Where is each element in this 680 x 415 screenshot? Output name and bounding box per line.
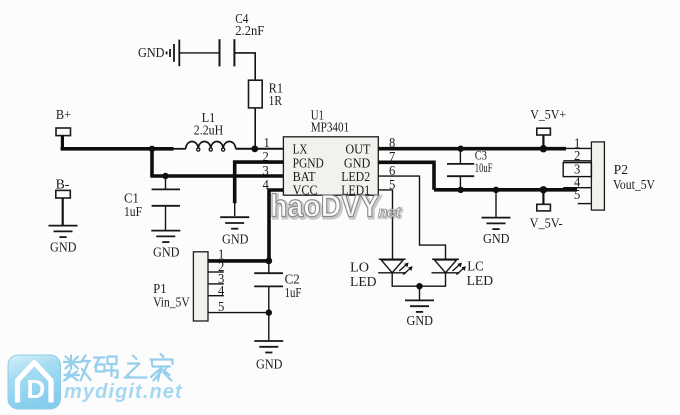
ground PGND <box>220 217 249 247</box>
label V_5V+ <box>530 107 566 122</box>
wire V_5V+ stub <box>542 135 544 149</box>
svg-text:MP3401: MP3401 <box>311 120 350 135</box>
svg-text:5: 5 <box>574 187 581 202</box>
node VCC junction <box>265 258 272 265</box>
node C3 bottom <box>458 187 464 193</box>
wire VCC pin4 <box>269 190 283 261</box>
svg-text:GND: GND <box>407 314 434 329</box>
svg-text:3: 3 <box>263 163 270 178</box>
label LO LED <box>350 261 377 290</box>
node C3 top <box>458 146 464 152</box>
P2 pin 4 <box>563 174 591 189</box>
connector P2 <box>591 142 604 210</box>
label B+ <box>56 107 71 122</box>
LED LO <box>378 259 412 274</box>
label C1 value <box>124 191 142 220</box>
terminal B+ <box>56 128 71 136</box>
label U1 right pin names <box>341 143 371 199</box>
wire C2 to ground <box>268 313 270 341</box>
capacitor C2 <box>254 261 283 313</box>
wire VCC to P1 pin1 <box>208 259 269 263</box>
wire R1 to node <box>254 108 256 149</box>
svg-text:PGND: PGND <box>293 156 324 171</box>
op-amp U1 MP3401 body <box>283 137 378 195</box>
P1 pin 3 stub <box>208 271 225 286</box>
svg-text:B-: B- <box>56 177 70 192</box>
svg-text:V_5V+: V_5V+ <box>530 107 566 122</box>
label R1 value <box>269 81 283 108</box>
svg-text:1R: 1R <box>269 93 282 108</box>
svg-text:OUT: OUT <box>345 143 370 158</box>
P2 pin 2 <box>563 148 591 163</box>
svg-text:LC: LC <box>467 260 484 275</box>
inductor L1 <box>173 141 235 151</box>
svg-text:Vout_5V: Vout_5V <box>613 177 655 192</box>
pin number 3 <box>263 163 270 178</box>
svg-text:net: net <box>378 204 402 221</box>
pin number 7 <box>389 149 396 164</box>
svg-text:P2: P2 <box>614 162 628 177</box>
label P1 <box>153 281 190 309</box>
node LED gnd junction <box>416 283 422 289</box>
svg-text:1uF: 1uF <box>285 285 302 300</box>
LED LC <box>432 259 466 274</box>
svg-text:2.2nF: 2.2nF <box>235 23 265 38</box>
wire BAT rail <box>150 174 283 178</box>
wire rail to ground <box>495 190 497 217</box>
P2 pin 5 <box>574 187 591 203</box>
label V_5V- <box>530 216 563 231</box>
ground LEDs <box>405 300 434 329</box>
svg-text:Vin_5V: Vin_5V <box>153 295 190 310</box>
ground B- <box>49 226 78 256</box>
P2 pin 1 <box>566 135 591 150</box>
pin number 4 <box>263 177 270 192</box>
node C1 junction <box>162 173 168 179</box>
label B- <box>56 177 70 192</box>
svg-text:GND: GND <box>222 233 249 248</box>
pin number 5 <box>389 177 396 192</box>
P1 pin 4 stub <box>208 283 225 298</box>
label LC LED <box>467 260 494 289</box>
label U1 <box>311 107 350 134</box>
svg-text:2.2uH: 2.2uH <box>194 122 224 137</box>
capacitor C3 <box>447 149 474 190</box>
svg-text:mydigit.net: mydigit.net <box>64 381 183 403</box>
svg-text:B+: B+ <box>56 107 71 122</box>
node P1 pin5 junction <box>266 309 272 315</box>
svg-text:GND: GND <box>344 156 370 171</box>
node output gnd junction <box>493 187 499 193</box>
svg-text:1uF: 1uF <box>124 204 142 219</box>
resistor R1 <box>249 80 263 108</box>
ground C4 (sideways) <box>167 40 180 67</box>
capacitor C4 <box>220 39 235 66</box>
P1 pin 2 stub <box>208 259 224 274</box>
svg-text:LO: LO <box>350 261 369 276</box>
label C4 value <box>235 11 265 38</box>
label C2 value <box>285 271 302 300</box>
terminal V_5V+ <box>537 128 551 135</box>
wire OUT rail <box>378 147 566 151</box>
P2 pin 3 loop <box>563 161 591 176</box>
node V_5V- junction <box>540 186 547 193</box>
wire LED cathodes <box>392 273 445 286</box>
svg-text:1: 1 <box>264 135 270 150</box>
wire GND pin7 <box>378 162 434 190</box>
svg-text:LX: LX <box>293 143 308 158</box>
label C3 value <box>475 148 493 175</box>
capacitor C1 <box>152 176 180 230</box>
svg-text:LED: LED <box>467 274 494 289</box>
wire LED1 pin5 <box>378 190 392 259</box>
wire LEDs to ground <box>419 286 421 300</box>
wire GND to C4 <box>180 52 220 54</box>
ground C1 <box>151 231 180 261</box>
wire B+ rail <box>61 147 174 151</box>
wire LED2 pin6 <box>378 176 445 259</box>
watermark haoDVY.net <box>270 189 403 225</box>
label GND C4 <box>138 46 165 61</box>
wire V_5V- stub <box>542 190 544 204</box>
svg-text:4: 4 <box>218 283 225 298</box>
connector P1 <box>193 252 208 321</box>
wire battery drop <box>150 149 154 176</box>
svg-text:GND: GND <box>50 240 77 255</box>
svg-text:GND: GND <box>256 358 283 373</box>
P1 pin 1 number <box>218 246 224 261</box>
wire B+ stub <box>61 136 64 149</box>
pin number 2 <box>263 149 269 164</box>
wire L1 to pin1 <box>236 148 284 150</box>
pin number 8 <box>389 135 396 150</box>
svg-text:5: 5 <box>218 299 225 314</box>
svg-text:D: D <box>27 374 46 404</box>
wire PGND pin2 <box>235 162 284 216</box>
node V_5V+ junction <box>540 145 547 152</box>
label P2 <box>613 162 655 192</box>
P1 pin 5 wire <box>208 299 269 314</box>
label L1 value <box>194 110 224 138</box>
ground output <box>482 218 511 247</box>
node battery junction <box>149 146 155 152</box>
svg-text:LED: LED <box>350 275 377 290</box>
pin number 6 <box>389 163 396 178</box>
logo text mydigit.net <box>64 381 183 403</box>
terminal V_5V- <box>537 204 551 211</box>
terminal B- <box>56 190 71 198</box>
wire B- stub <box>62 198 64 225</box>
svg-text:V_5V-: V_5V- <box>530 216 563 231</box>
logo icon mydigit <box>8 355 61 409</box>
wire C4 to R1 <box>234 53 255 80</box>
svg-text:GND: GND <box>483 232 510 247</box>
logo text shuma zhijia <box>64 354 173 381</box>
svg-text:GND: GND <box>153 245 180 260</box>
svg-text:10uF: 10uF <box>475 160 493 175</box>
ground C2 <box>254 341 283 373</box>
svg-text:GND: GND <box>138 46 165 61</box>
pin number 1 <box>264 135 270 150</box>
svg-text:haoDVY: haoDVY <box>270 189 379 224</box>
wire output bottom rail <box>434 188 577 192</box>
node R1 junction <box>251 145 258 152</box>
label U1 left pin names <box>293 143 324 199</box>
